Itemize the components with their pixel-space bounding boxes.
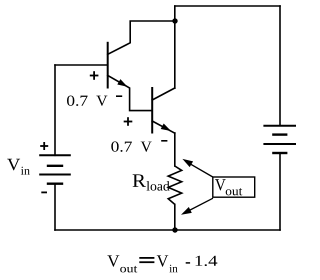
wire: right rail down to battery + plate [279,6,281,126]
battery Vin plus sign [40,142,48,150]
label: Rload [133,174,146,187]
battery V (right) [263,126,296,153]
wire: right battery - plate down to bottom rail [279,153,281,230]
transistor Q2 [152,88,175,133]
Vout callout box [213,177,255,197]
wire: top rail [175,5,280,7]
battery Vin (left) [39,155,71,183]
label: plus sign for Q1 base-emitter drop [90,71,99,80]
arrow from Vout box to resistor top wire [186,161,213,177]
label: 0.7 V (Q2) [111,141,132,151]
arrow from Vout box to resistor bottom wire [184,198,213,213]
formula: Vout = Vin - 1.4 [107,255,119,266]
wire: Q2 emitter vertical to resistor top [174,133,176,166]
label: plus sign for Q2 base-emitter drop [124,117,133,126]
wire: resistor bottom lead to bottom rail [174,204,176,230]
label: Vout in box [215,179,226,190]
label: 0.7 V (Q1) [67,96,88,106]
transistor Q2 emitter arrowhead [161,124,171,132]
wire: Vin - plate down to bottom rail [54,184,56,230]
wire: bottom rail [55,229,280,231]
wire: Q1 base lead [55,64,108,66]
junction dot at resistor bottom / bottom rail [172,227,177,232]
label: minus sign for Q1 base-emitter drop [116,95,122,97]
transistor Q1 emitter arrowhead [117,79,127,87]
transistor Q1 [108,21,175,111]
label: minus sign for Q2 base-emitter drop [161,140,167,142]
label: Vin [7,159,20,171]
wire: Vin + plate up to Q1 base level [54,65,56,155]
wire: Q2 collector vertical up to top rail [174,6,176,88]
resistor Rload zigzag [168,166,182,204]
battery Vin minus sign [41,191,47,193]
junction dot at Q1 collector / positive rail [172,18,177,23]
